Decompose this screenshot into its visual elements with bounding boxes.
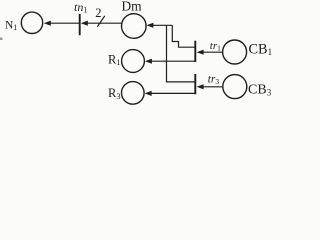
- wire tn1 to N1: [50, 22, 80, 24]
- wire tr1 to R1: [151, 60, 195, 62]
- svg-text:2: 2: [95, 6, 101, 20]
- place N1: [21, 12, 42, 33]
- svg-text:tr3: tr3: [208, 74, 220, 87]
- wire CB1 to tr1: [203, 51, 223, 53]
- place R3: [122, 82, 145, 105]
- transition tr3: [194, 74, 196, 94]
- svg-text:tr1: tr1: [210, 40, 221, 53]
- place R1: [122, 50, 145, 73]
- arrowhead at tn1: [81, 21, 88, 26]
- arrowhead at tr3: [197, 84, 204, 89]
- arrowhead into R3: [145, 91, 152, 96]
- arc weight slash: [97, 16, 105, 27]
- svg-text:R3: R3: [108, 86, 121, 101]
- svg-text:tn1: tn1: [74, 0, 87, 14]
- place Dm: [122, 14, 147, 39]
- place CB3: [223, 75, 247, 99]
- arrowhead at tr1: [197, 50, 204, 55]
- svg-text:CB3: CB3: [248, 83, 272, 98]
- wire into Dm (shared by tr1 and tr3): [153, 24, 173, 26]
- svg-text:R1: R1: [108, 52, 121, 67]
- arrowhead into Dm: [146, 23, 153, 28]
- svg-text:N1: N1: [5, 19, 17, 32]
- arrowhead into R1: [145, 59, 152, 64]
- transition tr1: [194, 41, 196, 62]
- wire tr1 to Dm (stepped): [172, 25, 195, 47]
- wire Dm to tn1: [87, 22, 123, 24]
- place CB1: [223, 40, 247, 64]
- transition tn1: [79, 14, 81, 35]
- svg-text:Dm: Dm: [122, 0, 143, 13]
- wire tr3 to Dm (long vertical): [167, 25, 196, 82]
- arrowhead into N1: [44, 21, 51, 26]
- wire CB3 to tr3: [203, 86, 224, 88]
- wire tr3 to R3: [151, 92, 196, 94]
- svg-text:CB1: CB1: [249, 41, 273, 57]
- stray scan mark left edge: [0, 38, 3, 41]
